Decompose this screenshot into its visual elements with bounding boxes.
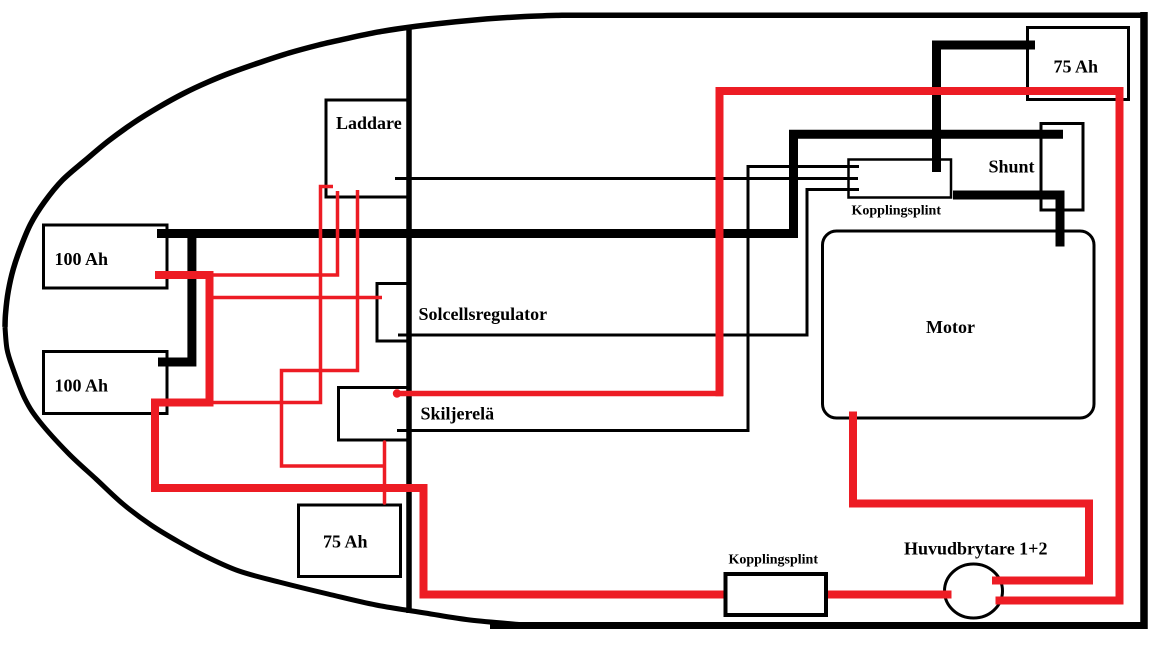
isolation relay box	[339, 388, 409, 441]
battery box 100Ah upper	[44, 225, 168, 288]
boat hull bottom edge	[490, 622, 1147, 629]
main switch circle	[945, 564, 1003, 618]
thick cable battery1 to battery2	[158, 229, 192, 362]
svg-text:75 Ah: 75 Ah	[1054, 56, 1099, 76]
wire terminal block to isolation relay	[397, 167, 859, 431]
svg-text:Shunt: Shunt	[989, 157, 1035, 177]
red wire charger terminal A	[213, 187, 333, 403]
svg-text:75 Ah: 75 Ah	[323, 532, 368, 552]
wire charger to terminal block	[395, 177, 858, 180]
svg-text:Solcellsregulator: Solcellsregulator	[419, 304, 548, 324]
svg-text:Laddare: Laddare	[336, 113, 402, 133]
boat hull right edge	[1140, 12, 1148, 629]
battery box 100Ah lower	[44, 352, 168, 414]
svg-text:Motor: Motor	[926, 317, 975, 337]
red wire relay to 75Ah battery	[383, 442, 387, 503]
shunt box	[1041, 124, 1083, 211]
svg-text:Kopplingsplint: Kopplingsplint	[852, 204, 942, 219]
svg-text:Huvudbrytare 1+2: Huvudbrytare 1+2	[904, 539, 1047, 559]
red cable motor to main switch	[853, 412, 1089, 581]
svg-text:100 Ah: 100 Ah	[55, 249, 109, 269]
wire terminal block to solar regulator	[398, 190, 859, 336]
boat hull bow bottom curve	[5, 327, 520, 625]
motor box	[823, 231, 1095, 418]
boat hull top curve	[5, 15, 1147, 327]
red cable relay to junction thin run	[397, 391, 723, 397]
terminal block lower box	[726, 574, 827, 615]
red cable relay to main switch via 75Ah	[720, 91, 1120, 601]
bulkhead divider wall	[406, 25, 412, 613]
svg-text:Kopplingsplint: Kopplingsplint	[729, 553, 819, 568]
svg-text:100 Ah: 100 Ah	[55, 376, 109, 396]
thick cable 75Ah upper to terminal block	[937, 45, 1036, 172]
svg-text:Skiljerelä: Skiljerelä	[421, 404, 495, 424]
solar regulator box	[377, 284, 408, 342]
red wire charger terminal B	[211, 191, 338, 275]
red wire solar regulator	[210, 296, 382, 300]
battery box 75Ah lower	[299, 505, 401, 577]
thick cable terminal block to motor	[953, 195, 1060, 247]
red cable battery positive main run	[155, 275, 952, 595]
red cable relay stub cap	[393, 389, 401, 397]
terminal block upper box	[849, 160, 952, 198]
charger box Laddare	[326, 100, 408, 197]
battery box 75Ah upper	[1028, 28, 1129, 100]
thick cable battery1 to shunt	[157, 134, 1063, 233]
red wire charger terminal C	[282, 190, 385, 466]
